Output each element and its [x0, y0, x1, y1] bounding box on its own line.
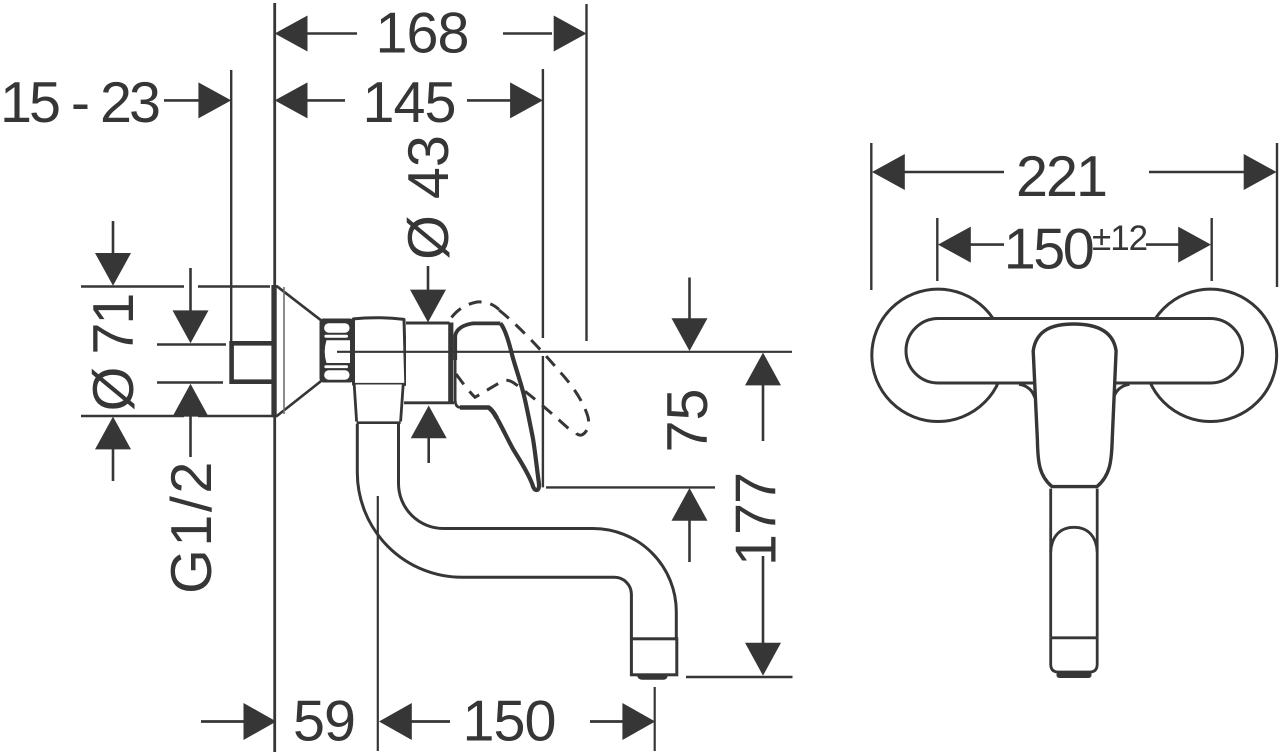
handle front view	[1033, 324, 1116, 487]
spout bend arch front view	[1051, 527, 1098, 552]
svg-text:±12: ±12	[1092, 219, 1147, 258]
spout shaft front view	[1051, 489, 1098, 638]
dimension 75	[546, 278, 720, 563]
dimension 221	[871, 143, 1277, 290]
body barrel	[354, 318, 406, 385]
extension line spout center	[377, 496, 379, 751]
svg-text:Ø 43: Ø 43	[397, 135, 461, 260]
extension line 15-23	[230, 70, 232, 341]
svg-text:G1/2: G1/2	[160, 459, 224, 594]
handle lever (side view)	[455, 323, 539, 490]
dimension 59 and 150 bottom	[201, 690, 655, 754]
dashed handle raised position	[452, 302, 589, 435]
connection nut	[320, 319, 355, 383]
dimension 150 plus-minus 12	[937, 217, 1211, 281]
svg-text:145: 145	[363, 71, 456, 135]
svg-text:59: 59	[293, 690, 355, 754]
svg-text:15 - 23: 15 - 23	[0, 71, 159, 135]
dimension diameter 71	[81, 221, 275, 481]
svg-text:150: 150	[1004, 217, 1093, 281]
left escutcheon circle	[872, 289, 1004, 421]
dimension G1/2	[157, 268, 226, 594]
dimension 177	[686, 353, 793, 677]
svg-text:177: 177	[724, 473, 788, 566]
extension line 145 right	[542, 69, 544, 487]
wall line	[273, 3, 276, 752]
extension line 168 right	[585, 4, 587, 341]
dimension 168	[275, 2, 587, 66]
escutcheon cone (side view)	[271, 285, 321, 417]
cartridge section	[404, 323, 454, 404]
dimension 145	[275, 71, 543, 135]
cross body bar	[906, 319, 1243, 384]
svg-text:221: 221	[1016, 145, 1106, 209]
dimension 15 - 23	[0, 71, 231, 135]
lower body and spout tube	[354, 385, 676, 639]
svg-text:150: 150	[463, 690, 556, 754]
svg-text:75: 75	[656, 389, 720, 453]
dimension diameter 43	[397, 135, 461, 463]
aerator front view	[1051, 638, 1098, 678]
aerator outlet	[631, 639, 676, 680]
svg-text:168: 168	[376, 2, 469, 66]
right escutcheon circle	[1144, 289, 1276, 421]
svg-text:Ø 71: Ø 71	[82, 295, 146, 412]
bar-handle fillets	[1019, 384, 1130, 397]
supply pipe square	[232, 343, 275, 381]
center axis line	[337, 351, 792, 353]
extension line outlet center	[654, 687, 656, 751]
